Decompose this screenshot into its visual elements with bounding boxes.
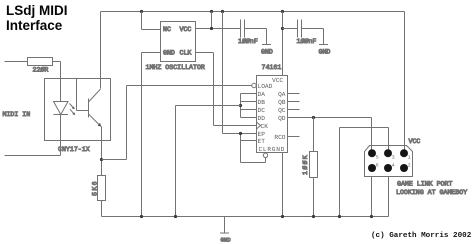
pin 4: [384, 164, 392, 172]
svg-text:GAME LINK PORT: GAME LINK PORT: [397, 181, 452, 188]
wire port pin4 to bus: [388, 177, 390, 217]
svg-text:GND: GND: [319, 49, 331, 56]
connector J1 game link port: [365, 146, 413, 177]
pin 6: [368, 164, 376, 172]
junction rail / EP riser: [221, 10, 224, 13]
resistor R3 100K: [310, 118, 318, 217]
svg-text:VCC: VCC: [180, 26, 192, 33]
svg-text:1ØØnF: 1ØØnF: [238, 38, 258, 45]
oscillator U3 1MHZ box: [161, 22, 196, 62]
svg-text:MIDI IN: MIDI IN: [3, 111, 31, 118]
svg-text:CNY17-1X: CNY17-1X: [58, 146, 90, 153]
ground symbol C1: [262, 29, 271, 45]
svg-text:GND: GND: [261, 49, 273, 56]
wire ground bus: [102, 216, 389, 218]
svg-text:DC: DC: [258, 107, 266, 114]
junction rail / osc VCC riser: [210, 10, 213, 13]
wire 220R to LED anode: [60, 62, 62, 102]
junction rail / U1 VCC riser: [281, 10, 284, 13]
resistor R1 220R: [5, 58, 61, 66]
wire rail to chip VCC: [282, 12, 284, 76]
svg-text:GND: GND: [163, 50, 175, 57]
svg-text:GND: GND: [221, 237, 232, 244]
wire port pin6 to bus: [371, 177, 373, 217]
pin 5: [368, 149, 376, 157]
svg-text:EP: EP: [258, 131, 266, 138]
svg-text:NC: NC: [163, 26, 171, 33]
diode LED inside optocoupler: [54, 102, 69, 115]
counter U1 74161: [257, 76, 288, 153]
pin QB stub: [288, 101, 300, 103]
ground symbol main: [220, 217, 229, 234]
wire osc VCC line: [196, 28, 241, 30]
capacitor C2 100nF: [298, 20, 324, 38]
wire feed to C2: [283, 28, 298, 30]
wire cathode to MIDI IN return: [5, 155, 61, 157]
svg-text:6: 6: [376, 163, 379, 169]
svg-text:LOOKING AT GAMEBOY: LOOKING AT GAMEBOY: [396, 189, 467, 196]
optocoupler U2 CNY17-1X package box: [45, 79, 111, 141]
junction rail / osc NC riser: [140, 10, 143, 13]
junction bus / osc GND: [140, 215, 143, 218]
svg-text:1ØØK: 1ØØK: [302, 154, 309, 175]
wire rail to osc NC: [142, 12, 161, 30]
svg-text:5: 5: [376, 154, 379, 160]
svg-text:1MHZ OSCILLATOR: 1MHZ OSCILLATOR: [146, 64, 205, 71]
svg-text:4: 4: [392, 163, 395, 169]
svg-text:QC: QC: [278, 107, 286, 114]
wire data inputs tie DA-DD: [241, 94, 257, 118]
capacitor C1 100nF: [241, 20, 267, 38]
light arrow 1: [70, 104, 75, 110]
wire rail drop to opto collector: [100, 12, 102, 89]
pin 1: [400, 149, 408, 157]
pin QA stub: [288, 93, 300, 95]
node junction EP: [239, 132, 242, 135]
svg-text:5K6: 5K6: [91, 180, 98, 196]
ground symbol C2: [319, 29, 328, 45]
node junction cap feed: [281, 27, 284, 30]
junction bus / port pin3 wire: [338, 215, 341, 218]
svg-text:LOAD: LOAD: [258, 83, 273, 90]
wire rail to VCC line: [211, 12, 213, 29]
svg-text:2: 2: [408, 163, 411, 169]
wire osc GND to ground bus: [142, 53, 161, 217]
transistor Q1 phototransistor: [77, 79, 102, 127]
junction bus / port pin6 wire: [370, 215, 373, 218]
svg-text:RCO: RCO: [274, 134, 285, 141]
light arrow 2: [70, 109, 75, 115]
junction bus / U1 GND: [281, 215, 284, 218]
junction bus / R3: [312, 215, 315, 218]
pin QC stub: [288, 109, 300, 111]
svg-text:1: 1: [408, 154, 411, 160]
wire rail VCC to port pin1: [404, 12, 406, 154]
svg-text:VCC: VCC: [409, 138, 421, 145]
pin RCO stub: [288, 136, 300, 138]
svg-text:CLRGND: CLRGND: [259, 146, 286, 153]
copyright text: [371, 232, 471, 240]
wire emitter down: [101, 127, 103, 176]
wire QD to game link SC: [288, 118, 372, 154]
svg-text:1ØØnF: 1ØØnF: [297, 38, 317, 45]
wire ET stub and CLR tie: [241, 134, 266, 163]
svg-text:QB: QB: [278, 99, 286, 106]
svg-text:3: 3: [392, 154, 395, 160]
wire port pin3 to ground bus: [340, 128, 389, 217]
svg-text:DD: DD: [258, 115, 266, 122]
wire osc CLK to counter CK: [196, 53, 257, 126]
svg-text:DA: DA: [258, 91, 266, 98]
svg-text:CLK: CLK: [180, 50, 192, 57]
wire data inputs to ground bus: [176, 106, 241, 217]
svg-text:22ØR: 22ØR: [33, 67, 49, 74]
node junction emitter/load: [100, 158, 103, 161]
wire VCC top rail: [101, 11, 405, 13]
pin CLR bubble: [263, 153, 267, 157]
wire LED cathode down: [60, 115, 62, 156]
resistor R2 5K6: [98, 176, 106, 217]
pin LOAD bubble: [252, 83, 256, 87]
svg-text:VCC: VCC: [272, 77, 283, 84]
svg-text:DB: DB: [258, 99, 266, 106]
svg-text:QA: QA: [278, 91, 286, 98]
pin labels left: [258, 77, 286, 153]
wire rail to EP: [223, 12, 257, 134]
svg-text:CK: CK: [261, 123, 269, 130]
svg-text:74161: 74161: [262, 64, 282, 71]
svg-text:ET: ET: [258, 138, 266, 145]
node junction QD: [312, 116, 315, 119]
node junction vcc: [210, 27, 213, 30]
wire emitter branch to LOAD: [102, 159, 127, 161]
pin 2: [400, 164, 408, 172]
pin CK clock triangle: [257, 122, 261, 129]
junction bus / data-input drop: [174, 215, 177, 218]
pin labels right: [274, 91, 285, 141]
node junction data feed: [239, 104, 242, 107]
title text: [6, 3, 68, 34]
svg-text:QD: QD: [278, 115, 286, 122]
pin number labels: [376, 154, 411, 168]
pin 3: [384, 149, 392, 157]
wire chip GND to bus: [282, 153, 284, 217]
